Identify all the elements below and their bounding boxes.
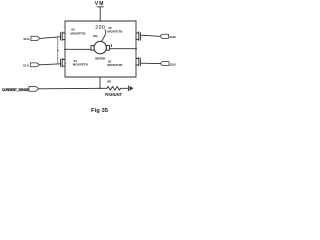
signal flag SHA (top-left) xyxy=(31,36,40,40)
svg-text:SLB: SLB xyxy=(170,62,177,66)
junction node left leg / motor xyxy=(64,48,66,50)
wire gate bottom-left xyxy=(40,64,61,65)
bottom rail wire xyxy=(65,76,136,78)
wire motor right xyxy=(110,48,136,50)
junction node sense xyxy=(99,88,101,90)
svg-text:VM: VM xyxy=(95,1,105,7)
transistor Q3 MOSFETB (bottom-left) xyxy=(61,58,66,67)
wire gate top-right xyxy=(140,35,160,36)
junction node right leg / motor xyxy=(135,48,137,50)
wire left leg xyxy=(64,21,66,77)
ground xyxy=(128,86,133,91)
svg-text:MOSFETB: MOSFETB xyxy=(73,63,89,67)
svg-text:MOSFETB: MOSFETB xyxy=(70,32,86,36)
svg-text:(M): (M) xyxy=(93,34,97,38)
svg-text:RSHUNT: RSHUNT xyxy=(105,92,122,97)
VDD rail wire (top) xyxy=(65,20,136,22)
svg-text:SLA: SLA xyxy=(23,64,30,68)
signal flag SLB (bottom-right) xyxy=(160,62,169,66)
junction node VM/rail xyxy=(99,20,101,22)
wire gate bottom-right xyxy=(140,62,160,64)
signal flag SLA (bottom-left) xyxy=(30,63,39,67)
svg-text:MOSFETB: MOSFETB xyxy=(107,30,123,34)
svg-text:MOTOR: MOTOR xyxy=(95,57,106,61)
motor M 200 xyxy=(91,41,112,53)
svg-text:SHA: SHA xyxy=(23,37,30,41)
wire sense node vertical xyxy=(99,77,101,88)
signal flag CURRENT_SENSE xyxy=(29,86,39,91)
wire gate top-left xyxy=(40,37,61,39)
svg-text:200: 200 xyxy=(95,25,105,31)
wire gate link left (vertical) xyxy=(57,37,59,64)
wire right leg xyxy=(135,21,137,77)
svg-text:MOSFETB: MOSFETB xyxy=(107,63,123,67)
resistor RSHUNT xyxy=(100,87,128,90)
svg-text:Fig 35: Fig 35 xyxy=(91,108,109,114)
svg-text:SHB: SHB xyxy=(169,35,176,39)
signal flag SHB (top-right) xyxy=(160,34,169,38)
wire current sense xyxy=(39,87,100,90)
transistor Q1 MOSFETB (top-left) xyxy=(61,32,66,41)
svg-text:(R): (R) xyxy=(107,79,111,83)
power supply terminal xyxy=(97,7,103,21)
transistor Q2 MOSFETB (top-right) xyxy=(135,32,140,41)
svg-text:CURRENT_SENSE: CURRENT_SENSE xyxy=(2,88,29,92)
wire motor left xyxy=(65,48,91,50)
transistor Q4 MOSFETB (bottom-right) xyxy=(135,57,140,66)
